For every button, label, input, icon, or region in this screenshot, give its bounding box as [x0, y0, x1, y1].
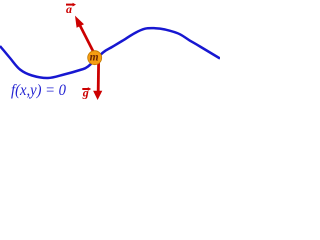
label a with vector bar [66, 2, 76, 16]
svg-text:g: g [82, 85, 89, 99]
vector a arrowhead [75, 16, 84, 28]
label g with vector bar [82, 85, 91, 99]
wave curve (fluid surface) [0, 28, 220, 78]
vector a (up-left arrow shaft) [80, 26, 94, 54]
fluid parcel m (orange disk) [88, 51, 102, 65]
svg-text:m: m [90, 52, 99, 64]
svg-text:f(x,y) = 0: f(x,y) = 0 [11, 82, 66, 99]
vector g arrowhead [93, 91, 102, 100]
vector g (down arrow shaft) [97, 63, 100, 92]
